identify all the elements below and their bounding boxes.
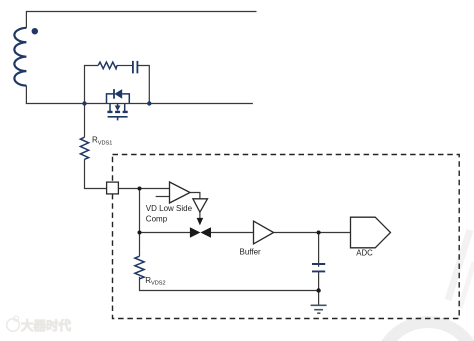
svg-text:RVDS2: RVDS2	[145, 276, 165, 287]
svg-text:RVDS1: RVDS1	[92, 136, 112, 147]
svg-text:ADC: ADC	[356, 249, 373, 258]
svg-text:大器时代: 大器时代	[21, 318, 72, 333]
svg-text:Comp: Comp	[146, 214, 168, 223]
svg-text:Buffer: Buffer	[240, 248, 262, 257]
svg-text:VD Low Side: VD Low Side	[146, 204, 193, 213]
